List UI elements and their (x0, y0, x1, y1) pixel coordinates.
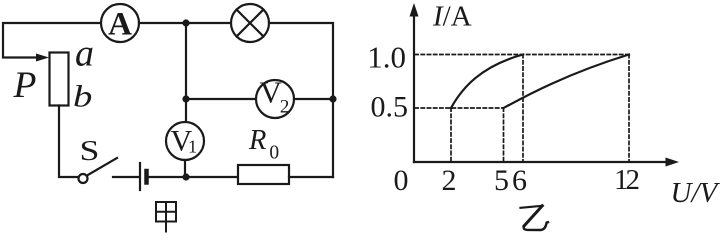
ammeter A (101, 4, 139, 43)
svg-text:12: 12 (614, 164, 640, 196)
label yi (乙) (521, 206, 549, 230)
voltmeter V1 (166, 122, 204, 160)
wire: switch to battery (113, 176, 139, 178)
wire: ammeter to lamp (139, 22, 231, 24)
node: junction right (V2 right) (329, 95, 336, 102)
svg-text:5: 5 (494, 164, 509, 197)
label b (73, 79, 92, 113)
svg-text:I/A: I/A (432, 1, 472, 33)
wire: lamp right, down right edge to R0 right (269, 23, 333, 177)
wire: middle vertical branch (185, 23, 187, 122)
x-axis U/V (414, 158, 679, 167)
svg-text:P: P (13, 65, 37, 106)
svg-text:a: a (75, 33, 94, 75)
dotted line U=12 (628, 55, 630, 162)
resistor R0 (238, 125, 289, 184)
dotted line U=6 (522, 55, 524, 162)
svg-text:6: 6 (512, 164, 527, 197)
node: junction middle (V2 left) (182, 95, 189, 102)
node: junction top middle (182, 19, 189, 26)
label jia (甲) (156, 202, 176, 232)
dotted line I=1.0 (415, 54, 629, 56)
svg-text:S: S (80, 135, 100, 166)
battery cell (140, 163, 147, 190)
voltmeter V2 (256, 75, 294, 119)
svg-text:2: 2 (442, 164, 457, 197)
wire: pot bottom down to switch (59, 106, 79, 178)
potentiometer P (rheostat) (36, 53, 69, 106)
dotted line U=5 (503, 108, 505, 161)
svg-text:1.0: 1.0 (367, 40, 406, 75)
svg-text:U/V: U/V (671, 177, 721, 209)
wire: R0 right lead (289, 176, 333, 178)
svg-text:0.5: 0.5 (371, 91, 409, 124)
lamp (bulb) (231, 4, 269, 42)
y-axis I/A (410, 3, 419, 162)
svg-text:b: b (73, 79, 92, 113)
wire: V1 bottom lead (184, 160, 186, 177)
svg-text:0: 0 (394, 164, 409, 197)
curve 1 (lamp I-U, 2V..6V) (451, 55, 523, 109)
dotted line U=2 (450, 108, 452, 161)
node: junction bottom (V1 bottom) (182, 173, 189, 180)
curve 2 (I-U, 5V..12V) (504, 55, 630, 109)
wire: V2 right lead (294, 98, 333, 100)
dotted line I=0.5 (415, 107, 503, 109)
wire: top-left loop from ammeter left, down left edge, to wiper (3, 23, 101, 58)
wire: battery to R0 (149, 176, 239, 178)
switch S (79, 135, 118, 183)
svg-text:A: A (108, 7, 132, 43)
wire: V2 left lead (186, 98, 256, 100)
